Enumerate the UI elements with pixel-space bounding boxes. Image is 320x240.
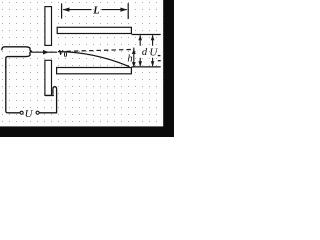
wire (anode bottom connection bar) (45, 94, 54, 96)
deflection plate P1 (top) (57, 27, 131, 33)
svg-text:h: h (127, 53, 132, 64)
svg-text:U: U (25, 108, 34, 120)
anode plate A1 (upper, with beam hole) (45, 7, 52, 46)
electron beam line with arrow (v0) (31, 51, 57, 53)
extension line (top, from upper plate) (132, 34, 161, 36)
extension line (bottom, from lower plate) (132, 66, 161, 68)
electron trajectory (parabola) (58, 52, 129, 67)
dimension U (deflecting voltage): arrows (152, 35, 154, 66)
wire (left lead from cathode down to source) (6, 66, 20, 113)
polarity mark (lower minus) (158, 60, 161, 62)
dimension d: arrows (139, 35, 141, 66)
terminal (right) of source U (36, 111, 39, 114)
dimension L: right tick (127, 3, 129, 19)
dimension L: left tick (61, 3, 63, 18)
svg-text:U: U (149, 47, 158, 59)
beam axis (dashed line) (67, 49, 135, 51)
deflection plate P2 (bottom) (57, 68, 132, 74)
anode plate A2 (lower, with beam hole) (45, 60, 52, 95)
svg-text:d: d (142, 47, 148, 58)
cathode K (filament bracket) (2, 47, 32, 68)
dimension h (deflection) (133, 48, 135, 67)
terminal (left) of source U (20, 111, 23, 114)
polarity mark (upper minus) (158, 55, 161, 57)
svg-text:L: L (92, 5, 99, 16)
wire (from right terminal to anode) (39, 87, 56, 113)
dimension L: line with arrows (63, 9, 127, 11)
